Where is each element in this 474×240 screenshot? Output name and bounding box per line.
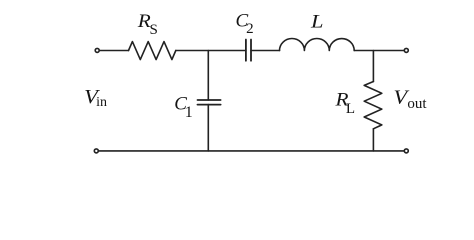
svg-text:2: 2	[246, 21, 254, 37]
wire top-left lead	[99, 50, 128, 52]
input terminal top-left	[95, 48, 99, 52]
label L	[310, 11, 324, 32]
bottom rail wire	[99, 150, 405, 152]
wire R_L to bottom rail	[372, 129, 374, 151]
capacitor C2 left plate	[245, 40, 247, 61]
label R_S	[137, 11, 158, 38]
capacitor C1 top plate	[198, 99, 221, 101]
input terminal bottom-left	[94, 149, 98, 153]
wire C2 to inductor	[251, 50, 280, 52]
label C2	[236, 11, 254, 37]
svg-text:S: S	[150, 22, 158, 38]
node R_L branch / wire top to R_L	[372, 51, 374, 82]
wire resistor to C2	[176, 50, 246, 52]
svg-text:L: L	[310, 11, 324, 32]
wire C1 to bottom rail	[207, 105, 209, 151]
label C1	[174, 94, 192, 122]
output terminal top-right	[404, 48, 408, 52]
resistor R_S	[129, 42, 176, 60]
svg-text:in: in	[96, 95, 107, 110]
label V_in	[84, 86, 107, 110]
svg-text:1: 1	[185, 104, 193, 121]
output terminal bottom-right	[404, 149, 408, 153]
resistor R_L	[364, 82, 382, 129]
label V_out	[394, 87, 428, 113]
label R_L	[334, 90, 355, 117]
svg-text:L: L	[346, 101, 355, 117]
inductor L	[280, 39, 355, 51]
node C1 branch / wire top to C1	[207, 51, 209, 101]
capacitor C2 right plate	[250, 40, 252, 61]
svg-text:out: out	[407, 96, 427, 112]
wire inductor to output terminal	[354, 50, 404, 52]
capacitor C1 bottom plate	[198, 104, 221, 106]
